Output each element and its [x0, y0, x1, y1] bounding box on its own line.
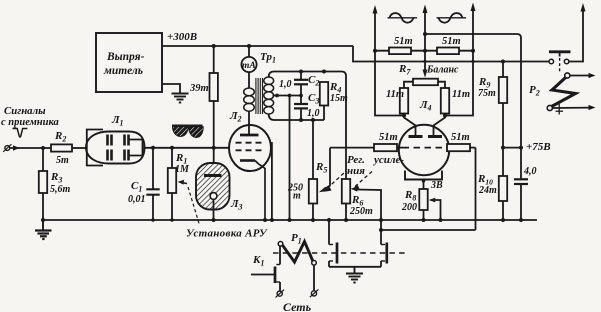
svg-text:1М: 1М	[175, 164, 190, 175]
wire 51t right down to relay line	[475, 148, 477, 230]
svg-text:24т: 24т	[478, 185, 497, 196]
svg-text:11т: 11т	[386, 89, 404, 100]
svg-text:т: т	[293, 191, 301, 202]
svg-text:С3: С3	[308, 92, 319, 106]
potentiometer R6	[342, 179, 383, 230]
shield blotch (glasses)	[172, 125, 203, 138]
resistor R9	[499, 60, 507, 177]
capacitor C3	[294, 104, 308, 122]
resistor 51t grid left	[374, 144, 403, 151]
svg-text:11т: 11т	[452, 89, 470, 100]
resistor 51t top left	[389, 48, 411, 55]
wire AGC line	[145, 147, 230, 149]
switch K1	[251, 246, 280, 291]
svg-text:Тр1: Тр1	[260, 51, 276, 65]
svg-text:+75В: +75В	[526, 141, 551, 153]
tube L3 indicator	[196, 148, 230, 222]
svg-text:R3: R3	[50, 171, 62, 185]
resistor R4	[320, 82, 328, 120]
node A	[41, 146, 45, 150]
wire to R5	[312, 120, 314, 179]
svg-text:Выпря-: Выпря-	[106, 51, 145, 63]
wire +75V top link	[425, 34, 521, 148]
svg-text:51т: 51т	[379, 132, 398, 143]
wire discriminator bottom rail	[269, 114, 324, 120]
svg-text:1,0: 1,0	[279, 79, 292, 90]
sine symbol 2	[437, 13, 467, 23]
svg-text:5,6т: 5,6т	[50, 184, 71, 195]
resistor R10	[499, 176, 507, 222]
ground rectifier	[172, 94, 189, 103]
svg-text:R5: R5	[315, 161, 327, 175]
svg-text:Л1: Л1	[111, 114, 124, 128]
wire discriminator top rail	[269, 72, 346, 180]
wire relay link	[381, 229, 476, 231]
sine symbol 1	[388, 13, 418, 23]
resistor 11t left	[400, 82, 413, 118]
svg-text:15т: 15т	[330, 93, 348, 104]
capacitor 4,0	[514, 148, 528, 222]
input terminal	[3, 144, 11, 152]
svg-text:Р1: Р1	[291, 232, 302, 246]
svg-text:К1: К1	[252, 254, 264, 268]
svg-text:Установка АРУ: Установка АРУ	[186, 228, 268, 240]
relay contact box	[327, 218, 387, 267]
resistor R3	[39, 148, 47, 220]
junction R5 feed	[311, 118, 315, 122]
svg-text:с приемника: с приемника	[1, 117, 59, 128]
dashed gang link R5	[324, 173, 345, 192]
wire right drop	[569, 3, 586, 62]
wire L2 grid2 down	[271, 143, 272, 220]
potentiometer R5	[309, 179, 317, 222]
tube L1 double diode	[86, 130, 145, 166]
jack symbol	[13, 129, 28, 137]
resistor 11t right	[438, 82, 449, 118]
wire +300V rail	[162, 46, 549, 62]
svg-text:С1: С1	[131, 180, 142, 194]
wire R5 wiper to grid line	[319, 148, 330, 193]
potentiometer R1	[168, 148, 200, 225]
ground relay	[346, 267, 363, 283]
wire ground rail bottom	[43, 219, 537, 221]
svg-text:Р2: Р2	[529, 84, 540, 98]
transformer Tr1 primary	[244, 88, 255, 111]
svg-text:Баланс: Баланс	[426, 65, 459, 76]
wire 51t anode rail	[375, 50, 473, 52]
switch contacts P2 top	[549, 52, 571, 72]
svg-text:митель: митель	[103, 65, 143, 77]
terminal mains right	[310, 289, 319, 297]
node +75V	[501, 146, 505, 150]
wire grid line left	[330, 147, 374, 149]
ground left	[35, 218, 52, 239]
meter mA	[241, 46, 256, 88]
svg-text:3В: 3В	[430, 180, 443, 191]
svg-text:51т: 51т	[451, 132, 470, 143]
rheostat P1	[278, 242, 316, 291]
svg-text:R8: R8	[404, 189, 416, 203]
junction R1 top	[170, 146, 174, 150]
junction C1 top	[151, 146, 155, 150]
svg-text:Л3: Л3	[230, 198, 243, 212]
rectifier box	[96, 33, 162, 92]
svg-text:ния: ния	[347, 165, 365, 177]
svg-text:5т: 5т	[56, 155, 69, 166]
svg-text:200: 200	[401, 202, 417, 213]
transformer Tr1 secondary	[264, 77, 274, 114]
svg-text:R2: R2	[54, 130, 66, 144]
resistor 39t	[210, 44, 218, 148]
wire input to node A	[10, 147, 43, 149]
svg-text:R7: R7	[398, 63, 411, 77]
arrow line 3 (right recorder coil)	[445, 3, 476, 116]
svg-text:1,0: 1,0	[307, 108, 320, 119]
junction 39t bottom	[212, 146, 216, 150]
svg-text:4,0: 4,0	[523, 166, 537, 177]
svg-text:51т: 51т	[442, 36, 461, 47]
svg-text:С2: С2	[308, 74, 319, 88]
junction C2 top	[299, 70, 303, 74]
potentiometer R8	[419, 189, 442, 222]
arrow line 2 (center, +75V net)	[423, 5, 428, 78]
svg-text:усиле-: усиле-	[372, 154, 404, 166]
svg-text:+300В: +300В	[167, 31, 197, 43]
capacitor C1	[146, 148, 159, 222]
tube L4	[399, 116, 449, 190]
arrow line 1 (left recorder coil)	[373, 5, 405, 116]
wire center tap	[273, 95, 302, 97]
svg-text:Л4: Л4	[419, 99, 432, 113]
transformer Tr1 core	[256, 78, 263, 114]
svg-text:51т: 51т	[394, 36, 413, 47]
resistor R2	[43, 144, 87, 151]
dashed gang link R6	[352, 172, 373, 190]
wire rectifier to ground	[162, 84, 180, 93]
svg-text:250т: 250т	[349, 206, 373, 217]
svg-text:39т: 39т	[189, 83, 209, 94]
resistor 51t top right	[437, 48, 459, 55]
resistor 51t grid right	[446, 144, 476, 151]
terminal mains left	[276, 290, 285, 298]
svg-text:Сеть: Сеть	[283, 300, 312, 312]
capacitor C2	[294, 72, 308, 105]
svg-text:тА: тА	[242, 61, 256, 71]
svg-text:Л2: Л2	[229, 110, 242, 124]
tube L2	[229, 111, 271, 220]
svg-text:0,01: 0,01	[128, 194, 146, 205]
dashed mechanical link	[273, 252, 406, 254]
recorder P2	[547, 73, 595, 115]
wire tap to ground rail	[289, 96, 291, 221]
junction R4 top	[322, 70, 326, 74]
node +300V junction Tr1	[247, 44, 251, 48]
svg-text:Сигналы: Сигналы	[4, 105, 46, 117]
potentiometer R7 balance	[413, 79, 438, 86]
svg-text:75т: 75т	[478, 88, 496, 99]
